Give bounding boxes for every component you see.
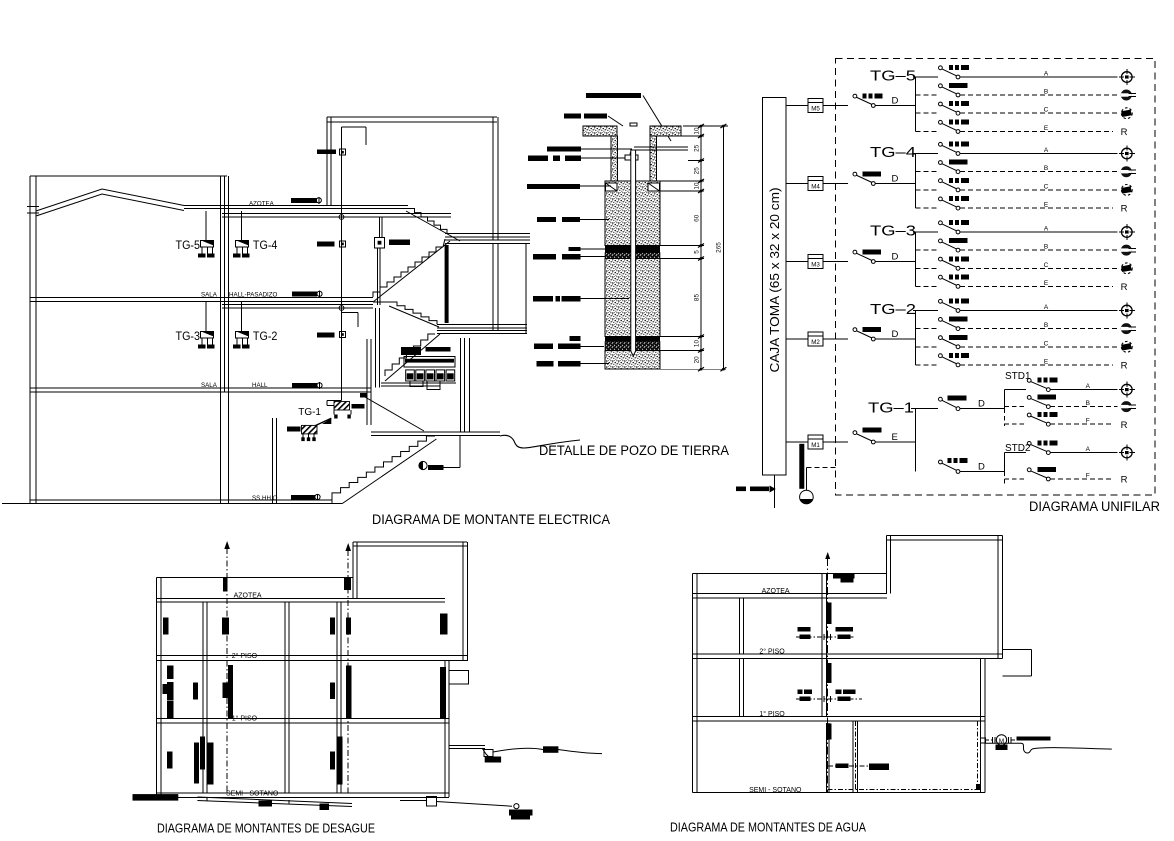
lower sewer exit	[400, 800, 427, 802]
svg-text:TG-2: TG-2	[253, 329, 278, 343]
main breaker M4	[853, 172, 857, 176]
svg-text:D: D	[892, 174, 899, 185]
riser vertical main line	[341, 127, 343, 401]
label small bar row9a	[570, 336, 581, 341]
interior wall 3	[336, 602, 338, 793]
TG-1 lower branch breaker	[939, 460, 943, 464]
feeder wire from caja toma	[786, 183, 808, 185]
branch row B	[916, 171, 938, 173]
feeder arrow thick dashed bar	[736, 487, 746, 492]
svg-text:SEMI - SOTANO: SEMI - SOTANO	[749, 787, 802, 794]
branch row C	[916, 346, 938, 348]
svg-text:D: D	[892, 96, 899, 107]
azotea dropped beam pair	[222, 213, 451, 215]
feeder wire from caja toma	[786, 105, 808, 107]
sewer fittings small bars	[258, 801, 271, 807]
ground bar bottom left	[133, 794, 179, 801]
parapet top	[157, 576, 354, 578]
desague parapet vent bars	[223, 578, 228, 592]
mid landing slab	[437, 323, 527, 325]
svg-text:TG-1: TG-1	[298, 407, 321, 418]
svg-text:TG-4: TG-4	[253, 238, 278, 252]
riser junction box	[340, 149, 346, 155]
stair tower top double line	[327, 116, 497, 118]
svg-text:R: R	[1121, 420, 1128, 431]
dimension line overall 265	[722, 126, 724, 369]
right exit pipe 1 piso	[449, 745, 485, 747]
1 piso slab	[157, 718, 450, 720]
branch row C	[916, 189, 938, 191]
label bars row10	[537, 361, 554, 367]
svg-text:DIAGRAMA DE MONTANTE ELECTRICA: DIAGRAMA DE MONTANTE ELECTRICA	[372, 512, 610, 527]
svg-text:TG-5: TG-5	[176, 238, 201, 252]
label bars row2	[564, 114, 581, 119]
main breaker M2	[853, 328, 857, 332]
svg-text:HALL: HALL	[252, 382, 268, 389]
wall top parapet line	[30, 175, 227, 177]
well sand section 2	[605, 259, 660, 337]
svg-text:C: C	[1044, 183, 1049, 190]
azotea slab agua	[692, 593, 887, 595]
meter box M4	[808, 177, 823, 191]
roof slope double line	[36, 189, 184, 211]
semi sotano floor agua	[692, 791, 984, 793]
branch row A	[939, 221, 943, 225]
dimension extension lines	[683, 125, 728, 127]
label bars row4	[528, 156, 548, 162]
well block sand section 1	[605, 181, 660, 246]
wall lamp basement	[291, 495, 315, 500]
water meter assembly	[985, 739, 992, 741]
svg-text:DIAGRAMA UNIFILAR: DIAGRAMA UNIFILAR	[1029, 499, 1160, 514]
well sand section 3	[605, 351, 660, 370]
svg-text:M2: M2	[811, 339, 820, 346]
svg-text:SALA: SALA	[201, 292, 218, 299]
svg-text:2° PISO: 2° PISO	[759, 647, 785, 655]
TG-1 main switch blade	[316, 418, 332, 425]
branch row B	[916, 328, 938, 330]
svg-text:E: E	[1044, 280, 1049, 287]
label bar top	[586, 93, 641, 98]
lower right block walls	[464, 338, 466, 432]
2 piso overhang right	[1003, 648, 1032, 650]
svg-text:B: B	[1044, 165, 1048, 172]
riser vertical bars	[827, 602, 832, 624]
desague pipe bars semi sotano	[194, 743, 199, 784]
stair stringer diagonals upper	[373, 241, 450, 302]
dark band 2	[605, 337, 660, 342]
STD2 branch A	[1004, 452, 1026, 454]
dashed link ground to unifilar box	[806, 467, 835, 469]
svg-text:265: 265	[716, 242, 723, 253]
meter box M5	[808, 99, 823, 113]
STD1 branch F	[1004, 423, 1026, 425]
main breaker M5	[853, 94, 857, 98]
svg-text:CAJA TOMA (65 x 32 x 20 cm): CAJA TOMA (65 x 32 x 20 cm)	[768, 188, 782, 373]
meter box M2	[808, 332, 823, 346]
right extension wall	[525, 244, 527, 334]
svg-text:B: B	[1044, 322, 1048, 329]
label small bar row7a	[569, 247, 581, 251]
tall block right wall upper	[462, 542, 464, 661]
wire continue box to floor2	[377, 248, 379, 305]
stair tower right wall	[492, 117, 494, 240]
rod fitting elbow	[625, 155, 638, 160]
svg-text:SEMI - SOTANO: SEMI - SOTANO	[226, 791, 279, 798]
dark band 1	[605, 246, 660, 253]
wall lamp floor2	[292, 292, 317, 297]
stair flight 4 mid landing down-left	[385, 334, 435, 376]
branch row A	[939, 66, 943, 70]
svg-text:E: E	[892, 432, 898, 443]
svg-text:TG–5: TG–5	[870, 68, 916, 85]
1 piso slab agua	[692, 715, 984, 717]
handrail black bar	[445, 245, 449, 323]
small bar under floor3	[360, 393, 366, 398]
bus vertical M4	[915, 154, 917, 209]
desague pipe bars 2nd floor	[167, 666, 173, 680]
svg-text:5: 5	[694, 250, 701, 254]
street pipe curve	[985, 743, 1112, 753]
svg-text:B: B	[1044, 244, 1048, 251]
stair tower left wall	[326, 117, 328, 206]
svg-text:SALA: SALA	[201, 382, 218, 389]
svg-text:A: A	[1044, 71, 1049, 78]
svg-text:TG–2: TG–2	[870, 301, 916, 318]
right small box	[449, 671, 469, 684]
riser top bars	[833, 573, 855, 578]
svg-text:F: F	[1086, 473, 1090, 480]
svg-text:25: 25	[694, 144, 701, 152]
branch row E	[916, 207, 938, 209]
semi sotano dash-dot loop	[828, 789, 981, 791]
svg-text:C: C	[1044, 340, 1049, 347]
main breaker TG-1	[853, 431, 857, 435]
unifilar dashed border	[836, 58, 1155, 495]
svg-text:D: D	[892, 329, 899, 340]
pipe horizontal double	[634, 146, 688, 148]
vent stack 1 with arrow	[226, 548, 228, 793]
svg-text:60: 60	[694, 214, 701, 222]
ground floor line SS HH	[30, 499, 332, 501]
water pipes 1st floor bars	[797, 690, 802, 695]
well corner boxes	[606, 183, 618, 191]
center tower wall agua	[821, 574, 823, 717]
label bars row3	[547, 147, 581, 152]
svg-text:E: E	[1044, 202, 1049, 209]
branch row A	[939, 142, 943, 146]
ground rod white corridor	[631, 150, 636, 356]
feeder wire from caja toma	[786, 338, 808, 340]
right wall agua	[979, 658, 981, 792]
label bars row6	[537, 217, 556, 222]
cap legs stippled	[611, 136, 618, 181]
label bars row7	[533, 254, 556, 260]
water riser dash-dot center	[827, 558, 829, 792]
svg-text:D: D	[978, 399, 985, 410]
svg-text:DIAGRAMA DE MONTANTES DE DESAG: DIAGRAMA DE MONTANTES DE DESAGUE	[157, 821, 375, 836]
branch row E	[916, 364, 938, 366]
branch row B	[916, 249, 938, 251]
stairwell wall floor2 to floor3	[375, 308, 377, 387]
electrical panelboard black masses	[401, 347, 421, 355]
ceiling box azotea big	[375, 238, 385, 249]
svg-text:M4: M4	[811, 184, 820, 191]
svg-text:1° PISO: 1° PISO	[759, 710, 785, 718]
wall left exterior	[29, 176, 31, 503]
svg-text:25: 25	[694, 167, 701, 175]
svg-text:D: D	[892, 252, 899, 263]
riser top L stub	[342, 126, 367, 128]
svg-text:A: A	[1044, 147, 1049, 154]
junction azotea	[339, 215, 344, 220]
STD2 branch F	[1004, 478, 1026, 480]
svg-text:E: E	[1044, 125, 1049, 132]
bottom sewer pipe inclined	[197, 797, 352, 804]
upper landing slab	[445, 233, 530, 235]
svg-text:A: A	[1044, 304, 1049, 311]
caja toma box	[763, 98, 787, 476]
svg-text:AZOTEA: AZOTEA	[762, 588, 790, 595]
azotea slab desague	[157, 597, 446, 599]
svg-text:DIAGRAMA DE MONTANTES DE AGUA: DIAGRAMA DE MONTANTES DE AGUA	[670, 820, 866, 835]
bus vertical M3	[915, 232, 917, 286]
interior wall A	[220, 176, 222, 392]
caja toma bottom line	[774, 475, 776, 508]
azotea wire drop double	[379, 217, 381, 237]
svg-text:E: E	[1044, 358, 1049, 365]
tall block left wall	[352, 542, 354, 598]
desague pipe bars azotea level	[163, 617, 169, 634]
svg-text:SS.HH.O: SS.HH.O	[252, 495, 278, 502]
interior wall 1	[202, 602, 204, 793]
left wall	[156, 577, 158, 795]
svg-text:R: R	[1121, 204, 1128, 215]
interior wall 2	[284, 602, 286, 793]
concrete cap hatched	[583, 126, 617, 136]
svg-text:R: R	[1121, 475, 1128, 486]
feeder wire from caja toma	[786, 261, 808, 263]
svg-text:B: B	[1044, 89, 1048, 96]
dimension line inner	[700, 126, 702, 369]
panel symbol TG-5	[201, 240, 214, 247]
semi sotano floor	[157, 792, 450, 794]
ceiling lamp floor2	[317, 333, 335, 338]
branch row E	[916, 285, 938, 287]
label bars row9	[534, 344, 553, 350]
svg-text:10: 10	[694, 340, 701, 348]
svg-text:DETALLE DE POZO DE TIERRA: DETALLE DE POZO DE TIERRA	[539, 443, 729, 458]
label bars row5	[527, 184, 580, 189]
TG-1 upper branch breaker	[939, 397, 943, 401]
branch row C	[916, 112, 938, 114]
svg-text:1° PISO: 1° PISO	[232, 714, 258, 722]
svg-text:TG-3: TG-3	[176, 329, 201, 343]
ground symbol well	[800, 490, 814, 504]
svg-text:M5: M5	[811, 106, 820, 113]
stair flight 3 2nd floor down to mid landing	[389, 302, 437, 324]
svg-text:F: F	[1086, 418, 1090, 425]
basement stringer diagonal	[343, 439, 437, 503]
vent stack 2 with arrow	[347, 550, 349, 793]
floor slab 3rd SALA HALL	[30, 387, 371, 389]
svg-text:AZOTEA: AZOTEA	[249, 201, 275, 208]
svg-text:2° PISO: 2° PISO	[232, 652, 258, 660]
stair flight 5 basement big flight	[332, 436, 435, 498]
main breaker M3	[853, 250, 857, 254]
svg-text:TG–1: TG–1	[868, 400, 914, 417]
TG-1 lower panel	[302, 425, 318, 434]
svg-text:A: A	[1086, 383, 1091, 390]
label bars row8	[533, 296, 553, 302]
wall lamp azotea left	[291, 198, 317, 203]
terrain curve right	[493, 748, 602, 753]
floor3 sub slab line	[381, 382, 440, 384]
parapet top agua	[692, 573, 887, 575]
tall block agua	[887, 535, 1003, 537]
svg-text:R: R	[1121, 361, 1128, 372]
2 piso slab	[157, 655, 468, 657]
svg-text:TG–4: TG–4	[870, 144, 916, 161]
right wall lower	[444, 661, 446, 797]
stair flight 1 azotea to landing	[408, 209, 447, 234]
junction floor2	[339, 306, 344, 311]
panel wires up	[205, 211, 207, 240]
bus vertical TG-1	[915, 409, 917, 472]
branch row A	[939, 299, 943, 303]
left wall agua	[691, 574, 693, 793]
lamp half dark mid basement	[419, 461, 427, 469]
squiggle leader to title	[500, 435, 580, 448]
svg-text:M3: M3	[811, 262, 820, 269]
floor slab 2nd SALA HALL-PASADIZO	[30, 297, 373, 299]
floor2 dropped beam pair	[222, 304, 373, 306]
svg-text:20: 20	[694, 356, 701, 364]
bus vertical M5	[915, 77, 917, 132]
stair flight 2 landing down-left to 2nd floor	[373, 247, 443, 297]
svg-text:A: A	[1086, 446, 1091, 453]
interior wall agua 1	[738, 598, 740, 654]
water pipes 2nd floor bars	[797, 627, 810, 632]
azotea floor slab	[184, 205, 408, 207]
svg-text:HALL-PASADIZO: HALL-PASADIZO	[229, 292, 278, 299]
meter box M3	[808, 255, 823, 269]
svg-text:M1: M1	[811, 442, 820, 449]
svg-text:A: A	[1044, 226, 1049, 233]
svg-text:TG–3: TG–3	[870, 223, 916, 240]
STD1 branch A	[1004, 389, 1026, 391]
svg-text:R: R	[1121, 282, 1128, 293]
svg-text:AZOTEA: AZOTEA	[234, 593, 262, 600]
2 piso slab agua	[692, 653, 1002, 655]
svg-text:C: C	[1044, 107, 1049, 114]
svg-text:85: 85	[694, 294, 701, 302]
water pipes semi sotano bars	[835, 763, 848, 768]
svg-text:R: R	[1121, 127, 1128, 138]
ceiling lamp azotea small	[317, 242, 335, 247]
svg-text:B: B	[1086, 400, 1090, 407]
meter box M1	[808, 435, 823, 449]
wall corner tick	[976, 784, 981, 790]
tall block top	[353, 541, 467, 543]
branch row C	[916, 267, 938, 269]
semi sotano interior walls agua	[852, 721, 854, 792]
branch row B	[916, 94, 938, 96]
bus vertical M2	[915, 311, 917, 365]
svg-text:D: D	[978, 461, 985, 472]
svg-text:M: M	[999, 738, 1004, 745]
svg-text:C: C	[1044, 262, 1049, 269]
ground conductor thick bar	[799, 444, 804, 489]
STD1 branch B	[1004, 406, 1026, 408]
wall lamp floor3	[292, 383, 317, 388]
branch row E	[916, 131, 938, 133]
svg-text:10: 10	[694, 127, 701, 135]
lower block bottom slab	[371, 431, 500, 433]
interior wall basement B	[272, 418, 274, 503]
svg-text:10: 10	[694, 182, 701, 190]
